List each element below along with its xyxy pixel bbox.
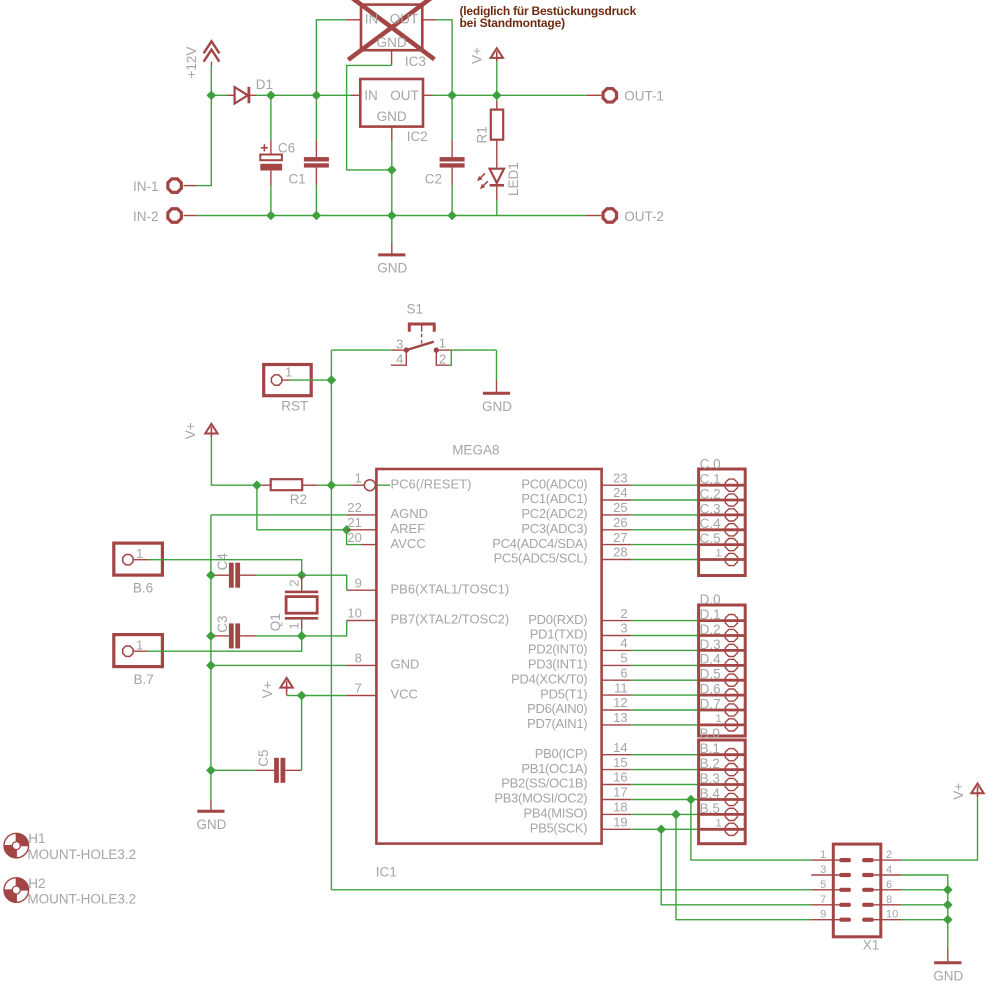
wire IC3 IN riser — [316, 20, 345, 96]
wire RESET net vertical — [330, 350, 332, 890]
wire GND rail vertical left — [210, 515, 212, 801]
svg-text:OUT-1: OUT-1 — [624, 88, 664, 103]
svg-text:C2: C2 — [425, 172, 442, 187]
wire B.6 to crystal top — [147, 560, 302, 576]
svg-text:2: 2 — [439, 351, 446, 366]
resistor R1 — [491, 101, 503, 169]
svg-text:D.4: D.4 — [700, 652, 722, 667]
svg-text:S1: S1 — [407, 302, 424, 317]
svg-text:Q1: Q1 — [268, 613, 283, 631]
wire X1 pin6 to GND — [901, 889, 948, 891]
svg-text:PC2(ADC2): PC2(ADC2) — [521, 506, 587, 521]
mount hole H1 symbol — [4, 833, 29, 858]
svg-text:C.4: C.4 — [700, 516, 722, 531]
svg-text:4: 4 — [396, 352, 403, 367]
svg-text:PD0(RXD): PD0(RXD) — [528, 612, 587, 627]
svg-text:PD5(T1): PD5(T1) — [540, 686, 587, 701]
pad X1 1 — [839, 858, 851, 862]
svg-text:10: 10 — [347, 606, 361, 621]
pin IC1 8 GND stub — [347, 664, 377, 666]
svg-text:1: 1 — [286, 622, 301, 629]
svg-text:GND: GND — [196, 817, 226, 832]
supply +12V arrow symbol — [204, 41, 220, 65]
wire RST to RESET net — [290, 379, 332, 381]
junction GND rail at pin8 — [207, 661, 215, 669]
svg-text:PD7(AIN1): PD7(AIN1) — [527, 716, 587, 731]
svg-text:4: 4 — [620, 636, 627, 651]
svg-text:IN: IN — [364, 88, 378, 103]
capacitor C2 — [440, 140, 465, 185]
svg-text:27: 27 — [613, 530, 627, 545]
pin IN-2 stub — [184, 215, 197, 217]
pin 27 stub — [602, 544, 631, 546]
pin S1 1 stub — [436, 349, 451, 351]
wire crystal bottom to pin10 — [302, 621, 347, 636]
pin X1 7 stub — [811, 904, 839, 906]
voltage regulator IC3 (unpopulated, crossed out) — [348, 0, 434, 60]
junction RESET at RST — [327, 376, 335, 384]
pad IN-2 — [168, 209, 181, 222]
svg-text:14: 14 — [613, 740, 627, 755]
pin 28 stub — [602, 559, 631, 561]
svg-text:AREF: AREF — [391, 521, 426, 536]
pin 11 stub — [602, 694, 631, 696]
svg-text:PB3(MOSI/OC2): PB3(MOSI/OC2) — [494, 791, 587, 806]
resistor R2 — [262, 479, 318, 490]
svg-text:1: 1 — [715, 713, 721, 725]
junction MISO drop — [672, 810, 680, 818]
svg-text:19: 19 — [613, 815, 627, 830]
wire pin 23 to header — [631, 484, 699, 486]
svg-text:6: 6 — [620, 665, 627, 680]
svg-text:16: 16 — [613, 770, 627, 785]
LED LED1 — [478, 169, 504, 201]
svg-text:1: 1 — [715, 548, 721, 560]
svg-text:IC3: IC3 — [405, 54, 426, 69]
svg-text:MOUNT-HOLE3.2: MOUNT-HOLE3.2 — [27, 847, 136, 862]
svg-text:PC3(ADC3): PC3(ADC3) — [521, 521, 587, 536]
pad X1 9 — [839, 918, 851, 922]
wire C1 branch upper — [315, 95, 317, 140]
wire V+ to R2 node — [211, 437, 257, 485]
wire crystal node to pin9 — [302, 575, 347, 590]
svg-text:OUT-2: OUT-2 — [624, 209, 664, 224]
wire MISO to X1 pin9 — [676, 814, 811, 919]
junction X1 GND pin8 — [944, 901, 952, 909]
svg-text:AVCC: AVCC — [391, 536, 426, 551]
junction MOSI drop — [687, 796, 695, 804]
pin 25 stub — [602, 514, 631, 516]
pin IC3 OUT — [422, 19, 436, 21]
ground symbol GND2 — [482, 381, 512, 414]
svg-text:12: 12 — [613, 695, 627, 710]
svg-text:B.7: B.7 — [134, 672, 154, 687]
switch S1 — [404, 324, 439, 353]
svg-text:V+: V+ — [470, 47, 485, 64]
supply V+ at VCC — [280, 678, 292, 692]
junction rail2 at GND — [388, 212, 396, 220]
wire pin 26 to header — [631, 529, 699, 531]
pin 17 stub — [602, 799, 631, 801]
svg-text:PD1(TXD): PD1(TXD) — [530, 627, 588, 642]
wire GND2 drop — [496, 350, 498, 380]
wire IC2 GND down — [391, 141, 393, 170]
wire V+ rail: IC2 OUT to OUT-1 — [433, 94, 587, 96]
supply V+ above R1 — [491, 48, 503, 62]
pin X1 5 stub — [811, 889, 839, 891]
wire V+ drop to AREF — [257, 485, 347, 530]
wire S1 pin3 to RESET net — [331, 349, 391, 351]
wire X1 pin8 to GND — [901, 904, 948, 906]
junction rail at C1 — [312, 91, 320, 99]
svg-text:GND: GND — [377, 35, 407, 50]
svg-text:H1: H1 — [28, 831, 45, 846]
svg-text:IN-1: IN-1 — [133, 179, 159, 194]
svg-text:D.2: D.2 — [700, 622, 721, 637]
junction GND rail at C3 — [207, 632, 215, 640]
svg-text:C6: C6 — [278, 141, 295, 156]
pin B.7 stub — [133, 650, 147, 652]
wire pin 24 to header — [631, 499, 699, 501]
wire LED1 to rail2 — [496, 201, 498, 216]
svg-text:7: 7 — [820, 894, 826, 906]
svg-text:1: 1 — [136, 638, 143, 653]
wire R2 left — [257, 484, 262, 486]
svg-text:PC6(/RESET): PC6(/RESET) — [391, 476, 472, 491]
svg-text:B.5: B.5 — [700, 801, 720, 816]
wire rail to D1 anode — [211, 94, 227, 96]
junction X1 GND pin10 — [944, 916, 952, 924]
wire MOSI to X1 pin1 — [691, 800, 811, 861]
svg-text:B.0: B.0 — [700, 726, 720, 741]
pin 16 stub — [602, 784, 631, 786]
junction rail2 at C6 — [267, 212, 275, 220]
svg-text:9: 9 — [820, 909, 826, 921]
svg-text:1: 1 — [715, 817, 721, 829]
svg-text:5: 5 — [620, 651, 627, 666]
wire RESET net into pin 1 — [376, 484, 390, 486]
svg-text:B.3: B.3 — [700, 771, 720, 786]
svg-text:7: 7 — [355, 681, 362, 696]
svg-text:bei Standmontage): bei Standmontage) — [460, 16, 566, 30]
mount hole H2 symbol — [4, 878, 29, 903]
pad X1 6 — [862, 888, 874, 892]
wire GND node to rail2 — [391, 170, 393, 216]
wire GND rail2 — [197, 215, 586, 217]
pin IC2 GND — [391, 127, 393, 142]
supply V+ at X1 — [971, 784, 983, 798]
svg-text:25: 25 — [613, 500, 627, 515]
wire S1 pin1 to GND2 — [451, 349, 497, 351]
wire V1 rail: D1 to IC2 IN — [256, 94, 351, 96]
svg-text:11: 11 — [614, 680, 628, 695]
svg-text:26: 26 — [613, 515, 627, 530]
junction rail2 at C2 — [448, 212, 456, 220]
wire +12V net: IN-1 to rail — [197, 66, 212, 186]
svg-text:IC2: IC2 — [407, 129, 428, 144]
pin IC1 1 PC6 with inversion circle — [352, 480, 376, 491]
pin 2 stub — [602, 620, 631, 622]
svg-text:PB7(XTAL2/TOSC2): PB7(XTAL2/TOSC2) — [391, 612, 510, 627]
wire crystal to bottom node — [301, 629, 303, 636]
wire C3 to crystal bottom node — [256, 635, 302, 637]
svg-text:13: 13 — [613, 710, 627, 725]
wire pin 27 to header — [631, 544, 699, 546]
pin IC3 IN — [346, 19, 361, 21]
wire V+ VCC node — [286, 692, 288, 696]
svg-text:2: 2 — [886, 849, 892, 861]
svg-text:B.6: B.6 — [133, 580, 153, 595]
wire AREF to AVCC link — [347, 530, 361, 545]
svg-text:D.0: D.0 — [700, 592, 721, 607]
wire IC3 OUT to rail — [437, 20, 453, 96]
svg-text:D.5: D.5 — [700, 667, 721, 682]
wire C4 to crystal node — [256, 574, 302, 576]
wire pin 18 to header — [631, 813, 699, 815]
pad X1 4 — [862, 873, 874, 877]
svg-text:23: 23 — [613, 470, 627, 485]
wire R2 right to RESET — [318, 484, 332, 486]
pin 23 stub — [602, 484, 631, 486]
pin IC1 10 PB7 stub — [347, 620, 377, 622]
svg-text:OUT: OUT — [390, 88, 419, 103]
pin X1 1 stub — [811, 859, 839, 861]
svg-text:GND: GND — [377, 109, 407, 124]
header D.0-D.7 (port D pads) — [699, 592, 746, 736]
junction GND node — [388, 166, 396, 174]
svg-text:MEGA8: MEGA8 — [452, 443, 499, 458]
pin IN-1 stub — [184, 185, 197, 187]
pin OUT-1 stub — [586, 94, 601, 96]
pin 18 stub — [602, 813, 631, 815]
svg-text:PC5(ADC5/SCL): PC5(ADC5/SCL) — [494, 551, 588, 566]
wire AGND to GND rail — [211, 514, 347, 516]
wire GND rail to pin8 — [211, 664, 347, 666]
svg-text:5: 5 — [820, 879, 826, 891]
svg-text:17: 17 — [613, 785, 627, 800]
capacitor C5 — [211, 758, 302, 783]
svg-text:C.3: C.3 — [700, 501, 721, 516]
svg-text:X1: X1 — [863, 938, 880, 953]
pin 3 stub — [602, 635, 631, 637]
svg-text:V+: V+ — [183, 422, 198, 439]
svg-text:IC1: IC1 — [376, 864, 397, 879]
svg-text:PC0(ADC0): PC0(ADC0) — [521, 476, 587, 491]
pin X1 6 stub — [874, 889, 901, 891]
junction X1 GND pin6 — [944, 886, 952, 894]
svg-text:20: 20 — [347, 530, 361, 545]
junction V+ R2 node — [253, 481, 261, 489]
svg-text:PB4(MISO): PB4(MISO) — [524, 806, 588, 821]
wire C2 branch lower — [451, 185, 453, 216]
pin 4 stub — [602, 649, 631, 651]
junction GND rail at C5 — [207, 766, 215, 774]
svg-text:22: 22 — [347, 500, 361, 515]
pin S1 2 stub — [436, 350, 449, 365]
pin B.6 stub — [133, 559, 147, 561]
svg-text:PD3(INT1): PD3(INT1) — [528, 657, 587, 672]
svg-text:GND: GND — [377, 260, 407, 275]
pin X1 10 stub — [874, 919, 901, 921]
svg-text:B.4: B.4 — [700, 786, 721, 801]
wire pin 11 to header — [631, 694, 699, 696]
pad X1 8 — [862, 903, 874, 907]
ground symbol GND4 — [933, 949, 963, 984]
svg-text:C.2: C.2 — [700, 486, 721, 501]
svg-text:D.1: D.1 — [700, 607, 721, 622]
junction rail at C6 — [267, 91, 275, 99]
wire pin 3 to header — [631, 635, 699, 637]
wire SCK to X1 pin7 — [661, 829, 811, 905]
svg-text:PB6(XTAL1/TOSC1): PB6(XTAL1/TOSC1) — [391, 581, 510, 596]
svg-text:2: 2 — [620, 606, 627, 621]
svg-text:H2: H2 — [28, 876, 45, 891]
wire RESET to pin1 — [331, 484, 351, 486]
wire pin 13 to header — [631, 724, 699, 726]
svg-text:R1: R1 — [475, 126, 490, 143]
pad X1 10 — [862, 918, 874, 922]
junction SCK drop — [657, 825, 665, 833]
wire X1 pin4 to GND — [901, 875, 948, 949]
svg-text:PD4(XCK/T0): PD4(XCK/T0) — [511, 671, 587, 686]
svg-text:PB5(SCK): PB5(SCK) — [530, 821, 588, 836]
junction crystal top node — [298, 571, 306, 579]
connector pad B.6 — [114, 543, 163, 575]
wire C6 branch lower — [270, 185, 272, 215]
svg-text:3: 3 — [820, 864, 826, 876]
pin X1 9 stub — [811, 919, 839, 921]
wire X1 pin2 to V+ — [901, 797, 977, 860]
wire pin 17 to header — [631, 799, 699, 801]
capacitor C6 (polarized) — [260, 140, 282, 185]
svg-text:MOUNT-HOLE3.2: MOUNT-HOLE3.2 — [27, 891, 136, 906]
junction GND rail at C4 — [207, 571, 215, 579]
wire X1 pin10 to GND — [901, 919, 948, 921]
svg-text:C5: C5 — [256, 749, 271, 766]
pad X1 7 — [839, 903, 851, 907]
pin OUT-2 stub — [586, 215, 601, 217]
svg-text:3: 3 — [396, 337, 403, 352]
svg-text:PC1(ADC1): PC1(ADC1) — [521, 491, 587, 506]
wire pin 2 to header — [631, 620, 699, 622]
svg-text:10: 10 — [886, 909, 898, 921]
diode D1 — [227, 87, 256, 104]
wire pin 16 to header — [631, 784, 699, 786]
svg-text:B.2: B.2 — [700, 756, 720, 771]
svg-text:21: 21 — [347, 515, 361, 530]
svg-text:8: 8 — [886, 894, 892, 906]
supply V+ above R2 — [205, 424, 217, 438]
pin IC1 7 VCC stub — [347, 695, 377, 697]
pin 5 stub — [602, 664, 631, 666]
svg-text:6: 6 — [886, 879, 892, 891]
wire C1 branch lower — [315, 185, 317, 216]
wire pin 5 to header — [631, 664, 699, 666]
wire pin 6 to header — [631, 679, 699, 681]
wire pin 28 to header — [631, 559, 699, 561]
connector pad B.7 — [114, 635, 163, 667]
svg-text:V+: V+ — [951, 783, 966, 800]
ground symbol GND1 — [377, 216, 407, 276]
pad X1 5 — [839, 888, 851, 892]
pin 15 stub — [602, 769, 631, 771]
pin S1 4 stub — [391, 350, 406, 365]
svg-text:9: 9 — [355, 575, 362, 590]
pin X1 2 stub — [874, 859, 901, 861]
pin 13 stub — [602, 724, 631, 726]
svg-text:PD2(INT0): PD2(INT0) — [528, 642, 587, 657]
ground symbol GND3 — [196, 801, 226, 832]
svg-text:IN: IN — [365, 11, 379, 26]
svg-text:28: 28 — [613, 545, 627, 560]
svg-text:18: 18 — [613, 800, 627, 815]
svg-text:VCC: VCC — [391, 687, 418, 702]
voltage regulator IC2 — [360, 79, 423, 127]
wire pin 25 to header — [631, 514, 699, 516]
svg-text:B.1: B.1 — [700, 741, 720, 756]
svg-text:PD6(AIN0): PD6(AIN0) — [527, 701, 587, 716]
junction RESET at R2 — [327, 481, 335, 489]
wire S1 pin2 to pin1 link — [449, 350, 451, 365]
junction rail at C2 — [448, 91, 456, 99]
wire VCC node to pin7 — [302, 695, 347, 697]
svg-text:8: 8 — [355, 651, 362, 666]
connector pad RST — [264, 365, 312, 396]
capacitor C3 — [211, 623, 256, 648]
wire pin 15 to header — [631, 769, 699, 771]
capacitor C1 — [304, 140, 329, 185]
svg-text:C.5: C.5 — [700, 531, 721, 546]
connector X1 body — [833, 844, 881, 937]
junction crystal bottom node — [298, 632, 306, 640]
pin 14 stub — [602, 754, 631, 756]
pad IN-1 — [168, 179, 181, 192]
svg-text:1: 1 — [820, 849, 826, 861]
svg-text:15: 15 — [613, 755, 627, 770]
wire rail to R1 — [496, 95, 498, 101]
junction rail2 at C1 — [312, 212, 320, 220]
svg-text:1: 1 — [285, 365, 292, 380]
svg-text:PB1(OC1A): PB1(OC1A) — [521, 761, 587, 776]
svg-text:+12V: +12V — [184, 47, 199, 79]
note text (bestueckungsdruck) — [460, 4, 637, 30]
svg-text:LED1: LED1 — [506, 162, 521, 196]
svg-text:D.3: D.3 — [700, 637, 721, 652]
wire C5 to VCC node — [301, 696, 303, 771]
pin X1 3 stub — [811, 874, 839, 876]
svg-text:1: 1 — [136, 546, 143, 561]
svg-text:RST: RST — [281, 398, 308, 413]
svg-text:R2: R2 — [290, 492, 307, 507]
pin 24 stub — [602, 499, 631, 501]
pad X1 2 — [862, 858, 874, 862]
wire C6 branch upper — [270, 95, 272, 140]
junction VCC node — [298, 692, 306, 700]
wire pin 4 to header — [631, 649, 699, 651]
pin 26 stub — [602, 529, 631, 531]
pad OUT-2 — [603, 209, 616, 222]
wire C2 branch upper — [451, 95, 453, 140]
crystal Q1 — [285, 575, 318, 628]
svg-text:D1: D1 — [256, 77, 273, 92]
pin RST stub — [282, 379, 289, 381]
svg-text:IN-2: IN-2 — [133, 209, 159, 224]
wire pin 14 to header — [631, 754, 699, 756]
svg-text:24: 24 — [613, 485, 627, 500]
svg-text:V+: V+ — [260, 681, 275, 698]
svg-text:C.1: C.1 — [700, 472, 721, 487]
wire pin 19 to header — [631, 828, 699, 830]
